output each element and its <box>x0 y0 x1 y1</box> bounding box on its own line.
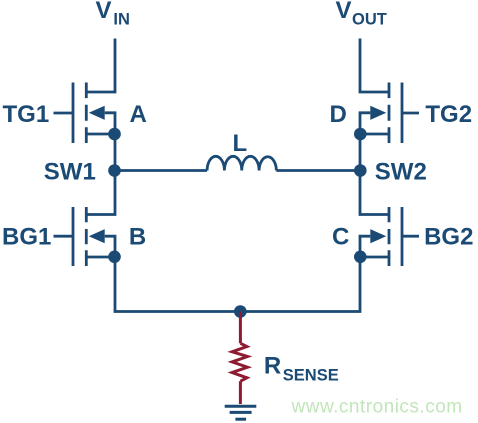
svg-text:A: A <box>130 101 147 128</box>
node C <box>332 223 367 263</box>
node B <box>108 223 146 263</box>
svg-text:SENSE: SENSE <box>283 367 339 385</box>
svg-text:BG1: BG1 <box>2 223 51 250</box>
label RSENSE <box>264 353 339 385</box>
svg-text:V: V <box>336 0 352 24</box>
wire SW1 to inductor <box>115 169 207 172</box>
wire VOUT to TG2 drain <box>360 39 389 93</box>
svg-text:SW2: SW2 <box>375 158 427 185</box>
svg-text:R: R <box>264 353 281 380</box>
wire SW1 to BG1 drain <box>86 171 115 215</box>
svg-text:TG2: TG2 <box>425 101 472 128</box>
svg-text:IN: IN <box>113 10 129 28</box>
svg-text:L: L <box>233 130 248 157</box>
resistor RSENSE <box>232 312 247 405</box>
svg-text:V: V <box>96 0 112 24</box>
inductor L <box>207 130 276 171</box>
svg-text:www.cntronics.com: www.cntronics.com <box>291 397 463 418</box>
svg-text:OUT: OUT <box>352 10 387 28</box>
transistor TG2 <box>360 83 419 144</box>
node SW2 <box>354 158 427 185</box>
transistor BG1 <box>54 207 116 266</box>
wire C to bottom rail <box>240 257 360 312</box>
wire VIN to TG1 drain <box>86 39 115 93</box>
wire D to SW2 <box>359 134 362 171</box>
node D <box>330 101 367 140</box>
transistor BG2 <box>360 207 419 266</box>
svg-text:D: D <box>330 101 347 128</box>
svg-text:BG2: BG2 <box>424 223 473 250</box>
node SW1 <box>44 158 121 185</box>
wire inductor to SW2 <box>276 169 360 172</box>
node A <box>108 101 147 140</box>
transistor TG1 <box>54 83 116 144</box>
junction node at RSENSE <box>234 305 247 318</box>
wire A to SW1 <box>114 134 117 171</box>
svg-text:C: C <box>332 223 349 250</box>
svg-text:SW1: SW1 <box>44 158 96 185</box>
wire SW2 to BG2 drain <box>360 171 389 215</box>
label VIN <box>96 0 130 28</box>
label VOUT <box>336 0 387 28</box>
svg-text:B: B <box>129 223 146 250</box>
svg-text:TG1: TG1 <box>3 101 50 128</box>
ground <box>225 406 257 419</box>
wire B to bottom rail <box>115 257 240 312</box>
